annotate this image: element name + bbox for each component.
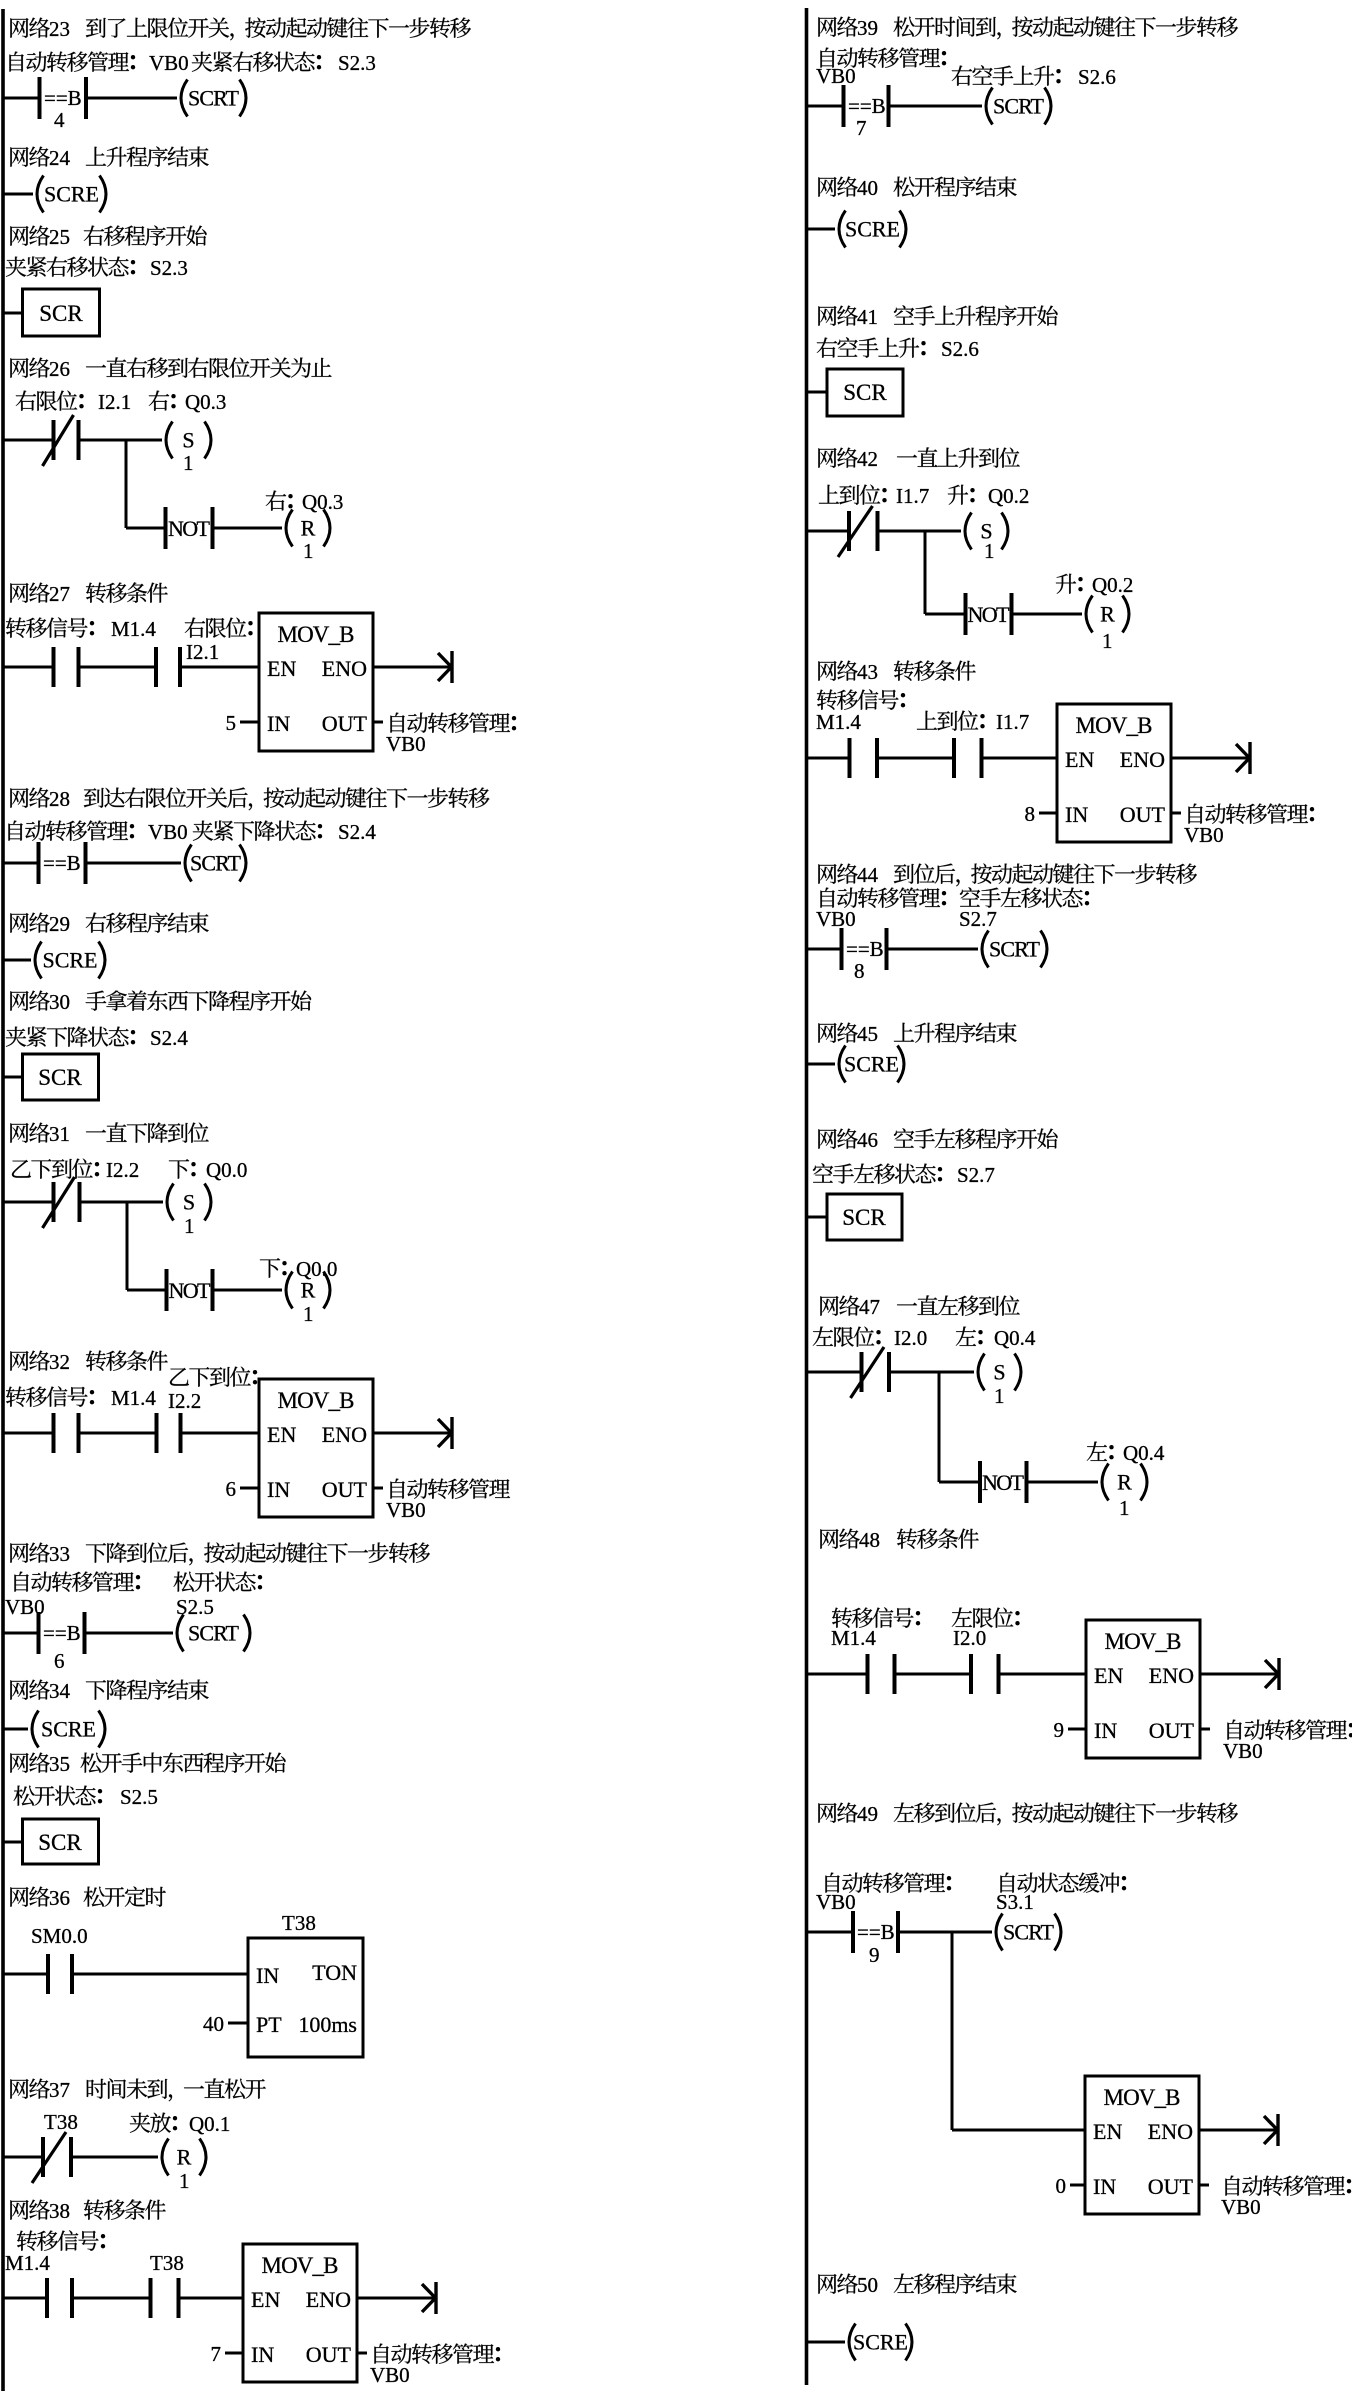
contact M1.4 <box>52 647 56 687</box>
SCR box S2.3 <box>23 289 100 336</box>
network 31 rung wire <box>3 1201 54 1204</box>
svg-text:VB0: VB0 <box>1221 2195 1261 2219</box>
network 46 operand label S2.7 <box>813 1163 833 1182</box>
network 41 rung wire <box>807 391 828 394</box>
svg-text:48: 48 <box>859 1528 880 1552</box>
svg-text:NOT: NOT <box>168 516 211 541</box>
network 42 rung wire <box>807 530 850 533</box>
svg-text:I2.2: I2.2 <box>106 1158 139 1182</box>
NC contact I1.7 <box>847 511 851 551</box>
svg-text:6: 6 <box>54 1649 65 1673</box>
SCR box S2.7 <box>827 1194 902 1240</box>
svg-text:NOT: NOT <box>982 1470 1025 1495</box>
svg-text:SCRT: SCRT <box>1003 1920 1055 1945</box>
svg-text:VB0: VB0 <box>386 1498 426 1522</box>
svg-text:IN: IN <box>256 1963 279 1988</box>
svg-text:VB0: VB0 <box>1184 823 1224 847</box>
svg-text:38: 38 <box>49 2199 70 2223</box>
svg-text:25: 25 <box>49 225 70 249</box>
svg-text:40: 40 <box>203 2012 224 2036</box>
svg-text:43: 43 <box>857 660 878 684</box>
network 26 operand labels <box>16 391 36 411</box>
svg-text:MOV_B: MOV_B <box>1104 2085 1181 2110</box>
svg-text:MOV_B: MOV_B <box>278 622 355 647</box>
coil R Q0.4 reset <box>1102 1464 1109 1501</box>
svg-text:42: 42 <box>857 447 878 471</box>
wire to MOV_B <box>999 1673 1087 1676</box>
svg-text:T38: T38 <box>44 2110 78 2134</box>
network 32 operand labels <box>6 1386 26 1406</box>
compare contact ==B VB0,4 <box>38 78 42 118</box>
branch wire down <box>938 1372 941 1482</box>
contact I2.2 <box>155 1413 159 1453</box>
network 47 rung wire <box>807 1371 862 1374</box>
svg-text:IN: IN <box>267 1477 290 1502</box>
svg-text:30: 30 <box>49 990 70 1014</box>
network 28 title <box>10 788 28 808</box>
svg-text:100ms: 100ms <box>298 2012 357 2037</box>
svg-text:EN: EN <box>1065 747 1094 772</box>
svg-text:IN: IN <box>1094 1718 1117 1743</box>
svg-text:NOT: NOT <box>169 1278 212 1303</box>
label Q0.2 for R coil <box>1056 574 1076 594</box>
wire <box>877 757 954 760</box>
svg-text:41: 41 <box>857 305 878 329</box>
wire to coil <box>889 105 983 108</box>
contact SM0.0 <box>46 1954 50 1994</box>
wire to coil <box>86 97 177 100</box>
svg-text:SCRE: SCRE <box>41 1717 96 1742</box>
network 39 title <box>818 17 836 37</box>
svg-text:M1.4: M1.4 <box>111 617 156 641</box>
svg-text:9: 9 <box>1054 1718 1065 1742</box>
network 39 rung wire <box>807 105 844 108</box>
svg-text:44: 44 <box>857 863 879 887</box>
contact I1.7 <box>952 738 956 778</box>
coil R Q0.2 reset <box>1086 596 1093 633</box>
network 36 rung wire <box>3 1973 48 1976</box>
network 35 title <box>10 1753 28 1773</box>
network 35 rung wire <box>3 1841 23 1844</box>
svg-text:S2.7: S2.7 <box>957 1163 995 1187</box>
svg-text:SCR: SCR <box>38 1830 82 1855</box>
wire to coil <box>85 1632 174 1635</box>
MOV_B box network 32 <box>259 1379 373 1517</box>
coil R Q0.1 reset <box>162 2139 169 2176</box>
svg-text:SCRE: SCRE <box>844 1052 899 1077</box>
svg-text:SCRT: SCRT <box>188 86 240 111</box>
coil SCRT S2.4 <box>185 845 192 882</box>
svg-text:VB0: VB0 <box>816 1890 856 1914</box>
network 46 rung wire <box>807 1216 828 1219</box>
svg-text:I2.1: I2.1 <box>98 390 131 414</box>
svg-text:0: 0 <box>1056 2174 1067 2198</box>
svg-text:28: 28 <box>49 787 70 811</box>
svg-text:T38: T38 <box>150 2251 184 2275</box>
network 27 operand labels <box>6 617 26 637</box>
network 38 rung wire <box>3 2297 47 2300</box>
svg-text:8: 8 <box>1025 802 1036 826</box>
svg-text:M1.4: M1.4 <box>111 1386 156 1410</box>
network 31 title <box>10 1123 28 1143</box>
svg-text:EN: EN <box>267 1422 296 1447</box>
svg-text:S2.5: S2.5 <box>120 1785 158 1809</box>
network 40 title <box>818 177 836 197</box>
network 45 rung wire <box>807 1063 836 1066</box>
svg-text:VB0: VB0 <box>370 2363 410 2387</box>
svg-text:R: R <box>301 1278 316 1303</box>
svg-text:OUT: OUT <box>322 1477 368 1502</box>
svg-text:OUT: OUT <box>1148 2174 1194 2199</box>
svg-text:ENO: ENO <box>322 656 367 681</box>
compare contact ==B VB0,5 <box>37 842 41 884</box>
svg-text:S3.1: S3.1 <box>996 1890 1034 1914</box>
svg-text:36: 36 <box>49 1886 70 1910</box>
compare contact ==B VB0,8 <box>840 928 844 970</box>
network 33 operand labels <box>14 1572 28 1592</box>
svg-text:==B: ==B <box>846 937 884 961</box>
coil SCRE <box>839 1046 846 1083</box>
network 41 operand label S2.6 <box>817 338 837 358</box>
svg-text:==B: ==B <box>44 86 82 110</box>
network 27 title <box>10 583 28 603</box>
network 29 title <box>10 913 28 933</box>
svg-text:7: 7 <box>856 116 867 140</box>
NOT contact <box>939 1481 980 1484</box>
network 25 rung wire <box>3 312 23 315</box>
coil SCRT S2.6 <box>986 88 993 125</box>
svg-text:ENO: ENO <box>1120 747 1165 772</box>
svg-text:==B: ==B <box>43 1621 81 1645</box>
network 35 operand label S2.5 <box>14 1786 35 1806</box>
svg-text:S2.6: S2.6 <box>1078 65 1116 89</box>
svg-text:ENO: ENO <box>306 2287 351 2312</box>
svg-text:TON: TON <box>312 1960 357 1985</box>
network 49 rung wire <box>807 1931 854 1934</box>
svg-text:SCRE: SCRE <box>845 217 900 242</box>
svg-text:24: 24 <box>49 146 71 170</box>
svg-text:S2.4: S2.4 <box>150 1026 188 1050</box>
label Q0.0 for R coil <box>260 1258 280 1278</box>
MOV_B box network 43 <box>1057 704 1171 842</box>
network 44 operand labels <box>820 888 834 908</box>
svg-text:1: 1 <box>1102 629 1113 653</box>
coil S Q0.4 set <box>978 1354 985 1391</box>
NC contact T38 <box>41 2137 45 2177</box>
svg-text:SCR: SCR <box>842 1205 886 1230</box>
svg-text:S: S <box>183 1190 195 1215</box>
contact I2.1 <box>154 647 158 687</box>
wire to R coil <box>1027 1481 1099 1484</box>
MOV_B box network 38 <box>243 2244 357 2382</box>
svg-text:26: 26 <box>49 357 70 381</box>
network 42 title <box>818 448 836 468</box>
svg-text:S: S <box>182 428 194 453</box>
network 45 title <box>818 1023 836 1043</box>
NC contact I2.2 <box>52 1182 56 1222</box>
wire <box>79 666 157 669</box>
network 44 rung wire <box>807 948 842 951</box>
svg-text:23: 23 <box>49 17 70 41</box>
svg-text:33: 33 <box>49 1542 70 1566</box>
svg-text:S2.4: S2.4 <box>338 820 376 844</box>
coil SCRE <box>35 942 42 979</box>
svg-text:Q0.0: Q0.0 <box>206 1158 247 1182</box>
network 49 title <box>818 1803 836 1823</box>
wire to MOV_B <box>982 757 1058 760</box>
svg-text:I2.2: I2.2 <box>168 1389 201 1413</box>
contact M1.4 <box>866 1654 870 1694</box>
svg-text:1: 1 <box>303 1302 314 1326</box>
svg-text:MOV_B: MOV_B <box>278 1388 355 1413</box>
svg-text:1: 1 <box>184 1214 195 1238</box>
network 29 rung wire <box>3 959 31 962</box>
network 47 title <box>820 1296 838 1316</box>
svg-text:MOV_B: MOV_B <box>262 2253 339 2278</box>
branch wire down <box>125 440 128 528</box>
network 30 title <box>10 991 28 1011</box>
coil S Q0.0 set <box>167 1184 174 1221</box>
coil SCRT S2.7 <box>982 931 989 968</box>
svg-text:ENO: ENO <box>322 1422 367 1447</box>
wire to R coil <box>1012 613 1083 616</box>
contact M1.4 <box>45 2278 49 2318</box>
svg-text:OUT: OUT <box>1120 802 1166 827</box>
svg-text:R: R <box>1100 602 1115 627</box>
svg-text:EN: EN <box>251 2287 280 2312</box>
network 43 operand labels <box>817 689 837 709</box>
network 34 rung wire <box>3 1728 28 1731</box>
svg-text:I2.0: I2.0 <box>894 1326 927 1350</box>
svg-text:EN: EN <box>1093 2119 1122 2144</box>
svg-text:VB0: VB0 <box>1223 1739 1263 1763</box>
branch wire down <box>924 531 927 614</box>
svg-text:SCR: SCR <box>39 301 83 326</box>
network 28 operand labels <box>8 821 22 841</box>
svg-text:SCRE: SCRE <box>853 2330 908 2355</box>
network 43 rung wire <box>807 757 850 760</box>
svg-text:47: 47 <box>859 1295 880 1319</box>
network 30 operand label S2.4 <box>6 1027 26 1047</box>
compare contact ==B VB0,9 <box>851 1911 855 1953</box>
svg-text:I2.0: I2.0 <box>953 1626 986 1650</box>
network 24 rung wire <box>3 193 33 196</box>
svg-text:OUT: OUT <box>306 2342 352 2367</box>
NOT contact <box>127 1289 167 1292</box>
wire <box>72 2297 151 2300</box>
svg-text:M1.4: M1.4 <box>816 710 861 734</box>
svg-text:SCRE: SCRE <box>44 182 99 207</box>
svg-text:IN: IN <box>267 711 290 736</box>
svg-text:R: R <box>177 2145 192 2170</box>
svg-text:5: 5 <box>226 711 237 735</box>
svg-text:34: 34 <box>49 1679 71 1703</box>
coil SCRE <box>839 211 846 248</box>
svg-text:9: 9 <box>869 1943 880 1967</box>
wire to S coil <box>878 530 962 533</box>
wire to coil with branch node <box>898 1931 992 1934</box>
SCR box S2.6 <box>827 369 903 416</box>
svg-text:49: 49 <box>857 1802 878 1826</box>
svg-text:R: R <box>1117 1470 1132 1495</box>
svg-text:S2.3: S2.3 <box>338 51 376 75</box>
svg-text:EN: EN <box>1094 1663 1123 1688</box>
MOV_B box network 49 <box>1085 2076 1199 2214</box>
MOV_B box network 48 <box>1086 1620 1200 1758</box>
label Q0.4 for R coil <box>1087 1442 1107 1461</box>
wire to coil <box>887 948 979 951</box>
svg-text:VB0: VB0 <box>816 907 856 931</box>
svg-text:6: 6 <box>226 1477 237 1501</box>
svg-text:27: 27 <box>49 582 70 606</box>
svg-text:Q0.4: Q0.4 <box>1123 1441 1165 1465</box>
compare contact ==B VB0,7 <box>842 85 846 127</box>
branch wire down <box>126 1202 129 1290</box>
svg-text:SM0.0: SM0.0 <box>31 1924 88 1948</box>
svg-text:Q0.2: Q0.2 <box>1092 573 1133 597</box>
svg-text:MOV_B: MOV_B <box>1105 1629 1182 1654</box>
svg-text:OUT: OUT <box>1149 1718 1195 1743</box>
svg-text:OUT: OUT <box>322 711 368 736</box>
wire to S coil <box>80 1201 164 1204</box>
svg-text:1: 1 <box>984 539 995 563</box>
svg-text:7: 7 <box>211 2342 222 2366</box>
network 34 title <box>10 1680 28 1700</box>
svg-text:VB0: VB0 <box>816 64 856 88</box>
coil SCRE <box>32 1711 39 1748</box>
svg-text:==B: ==B <box>848 94 886 118</box>
svg-text:I1.7: I1.7 <box>996 710 1029 734</box>
svg-text:Q0.3: Q0.3 <box>185 390 226 414</box>
network 32 rung wire <box>3 1432 54 1435</box>
network 30 rung wire <box>3 1076 23 1079</box>
svg-text:Q0.2: Q0.2 <box>988 484 1029 508</box>
svg-text:M1.4: M1.4 <box>5 2251 50 2275</box>
network 26 title <box>10 358 28 378</box>
network 48 rung wire <box>807 1673 868 1676</box>
network 50 rung wire <box>807 2341 846 2344</box>
wire <box>895 1673 972 1676</box>
svg-text:SCR: SCR <box>843 380 887 405</box>
svg-text:31: 31 <box>49 1122 70 1146</box>
network 48 operand labels <box>832 1607 852 1627</box>
contact M1.4 <box>848 738 852 778</box>
svg-text:1: 1 <box>994 1384 1005 1408</box>
svg-text:ENO: ENO <box>1148 2119 1193 2144</box>
svg-text:SCRT: SCRT <box>989 937 1041 962</box>
svg-text:S2.7: S2.7 <box>959 907 997 931</box>
MOV_B box network 27 <box>259 613 373 751</box>
wire to R coil <box>213 527 283 530</box>
network 38 operand labels <box>17 2230 37 2250</box>
svg-text:T38: T38 <box>282 1911 316 1935</box>
svg-text:I2.1: I2.1 <box>186 640 219 664</box>
svg-text:IN: IN <box>251 2342 274 2367</box>
network 46 title <box>818 1129 836 1149</box>
network 23 rung wire <box>3 97 40 100</box>
wire to S coil with branch node <box>79 439 163 442</box>
network 23 operand labels <box>9 52 23 72</box>
right power rail <box>805 8 809 2385</box>
network 32 title <box>10 1351 28 1371</box>
svg-text:==B: ==B <box>43 851 81 875</box>
timer box T38 TON <box>248 1938 363 2057</box>
svg-text:VB0: VB0 <box>148 820 188 844</box>
network 50 title <box>818 2274 836 2294</box>
network 36 title <box>10 1887 28 1907</box>
network 37 title <box>10 2079 28 2099</box>
wire to MOV_B <box>181 1432 260 1435</box>
network 41 title <box>818 306 836 326</box>
svg-text:1: 1 <box>183 451 194 475</box>
left power rail <box>1 9 5 2391</box>
coil SCRE <box>37 176 44 213</box>
svg-text:SCR: SCR <box>38 1065 82 1090</box>
network 44 title <box>818 864 836 884</box>
svg-text:8: 8 <box>854 959 865 983</box>
svg-text:4: 4 <box>54 108 65 132</box>
network 37 rung wire <box>3 2156 43 2159</box>
svg-text:32: 32 <box>49 1350 70 1374</box>
NC contact I2.1 <box>52 420 56 460</box>
network 28 rung wire <box>3 862 39 865</box>
svg-text:I1.7: I1.7 <box>896 484 929 508</box>
wire to MOV_B <box>180 666 259 669</box>
NOT contact <box>925 613 966 616</box>
contact M1.4 <box>52 1413 56 1453</box>
network 38 title <box>10 2200 28 2220</box>
svg-text:SCRE: SCRE <box>43 948 98 973</box>
svg-text:SCRT: SCRT <box>993 94 1045 119</box>
contact I2.0 <box>969 1654 973 1694</box>
coil SCRT S2.5 <box>177 1615 184 1652</box>
svg-text:1: 1 <box>303 539 314 563</box>
network 25 title <box>10 226 28 246</box>
svg-text:SCRT: SCRT <box>190 851 242 876</box>
svg-text:35: 35 <box>49 1752 70 1776</box>
svg-text:S: S <box>993 1360 1005 1385</box>
network 43 title <box>818 661 836 681</box>
network 42 operand labels <box>819 485 839 504</box>
svg-text:SCRT: SCRT <box>188 1621 240 1646</box>
network 27 rung wire <box>3 666 54 669</box>
svg-text:1: 1 <box>179 2169 190 2193</box>
SCR box S2.4 <box>23 1054 99 1100</box>
network 24 title <box>10 147 28 167</box>
wire to MOV_B <box>179 2297 244 2300</box>
network 39 operand labels <box>820 48 834 68</box>
coil S Q0.2 set <box>965 513 972 550</box>
wire to timer box <box>72 1973 248 1976</box>
svg-text:R: R <box>301 516 316 541</box>
network 49 operand labels <box>825 1873 839 1893</box>
svg-text:ENO: ENO <box>1149 1663 1194 1688</box>
svg-text:NOT: NOT <box>968 602 1011 627</box>
svg-text:EN: EN <box>267 656 296 681</box>
svg-text:1: 1 <box>1119 1496 1130 1520</box>
svg-text:VB0: VB0 <box>149 51 189 75</box>
coil S Q0.3 set <box>166 422 173 459</box>
svg-text:40: 40 <box>857 176 878 200</box>
label Q0.3 for R coil <box>266 491 286 511</box>
svg-text:29: 29 <box>49 912 70 936</box>
coil SCRT S2.3 <box>181 80 188 117</box>
svg-text:37: 37 <box>49 2078 70 2102</box>
network 25 operand label S2.3 <box>6 257 26 277</box>
compare contact ==B VB0,6 <box>37 1612 41 1654</box>
network 31 operand labels <box>12 1160 31 1178</box>
svg-text:39: 39 <box>857 16 878 40</box>
